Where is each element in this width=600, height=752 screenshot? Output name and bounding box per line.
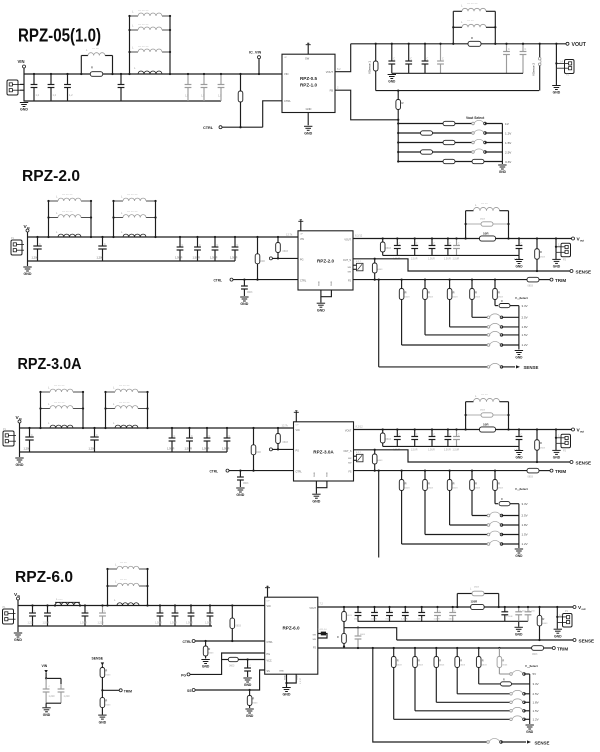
resistor R6 trim <box>527 277 539 282</box>
svg-text:R: R <box>106 670 108 673</box>
svg-text:Vout Select: Vout Select <box>466 116 485 120</box>
svg-text:VIN: VIN <box>18 59 25 64</box>
svg-text:GND: GND <box>304 132 312 136</box>
capacitor C17 output <box>452 607 454 613</box>
ground input <box>14 632 22 634</box>
svg-text:FS: FS <box>348 471 351 474</box>
svg-text:~~ ~~ ~~: ~~ ~~ ~~ <box>54 385 65 388</box>
svg-text:RPZ-0.5: RPZ-0.5 <box>300 76 318 81</box>
wire SS <box>195 670 265 690</box>
capacitor C15 output <box>421 607 423 613</box>
svg-text:FS: FS <box>348 280 351 283</box>
svg-text:VOUT: VOUT <box>572 42 587 48</box>
svg-text:0603: 0603 <box>386 619 392 621</box>
wire PG <box>190 653 265 674</box>
svg-text:0603: 0603 <box>540 448 546 450</box>
svg-text:~~ ~~ ~~: ~~ ~~ ~~ <box>138 45 149 48</box>
jumper 2.5V <box>487 316 490 319</box>
svg-text:CTRL: CTRL <box>267 641 274 644</box>
svg-text:0603: 0603 <box>347 615 353 617</box>
svg-text:GND: GND <box>515 554 523 558</box>
svg-text:OUT_S: OUT_S <box>344 450 352 453</box>
resistor R1 CTRL pull-up <box>256 236 258 238</box>
capacitor C10 VCC <box>246 658 248 660</box>
ground IC pins <box>321 290 332 297</box>
svg-text:1.8V: 1.8V <box>533 701 539 705</box>
ground IC <box>307 113 309 126</box>
op-amp U1 regulator RPZ-0.5/RPZ-1.0 <box>282 54 335 112</box>
svg-text:04R: 04R <box>257 451 262 454</box>
svg-text:1,5UR: 1,5UR <box>428 449 435 452</box>
wire input bus <box>28 236 299 238</box>
svg-text:1,2: 1,2 <box>53 93 57 97</box>
svg-text:~~ ~~ ~~: ~~ ~~ ~~ <box>119 401 130 404</box>
bead SW link <box>318 634 327 639</box>
inductor block output <box>456 594 458 608</box>
svg-text:0603: 0603 <box>418 619 424 621</box>
svg-text:2.5V: 2.5V <box>522 316 528 320</box>
svg-text:Select: Select <box>530 664 538 668</box>
svg-text:0603: 0603 <box>540 257 546 259</box>
svg-text:R: R <box>209 648 211 651</box>
svg-text:C: C <box>508 48 510 51</box>
jumper 2.5V <box>472 151 475 154</box>
svg-text:out: out <box>581 607 585 611</box>
resistor R11 select ladder <box>478 647 480 649</box>
svg-text:1.2V: 1.2V <box>522 343 528 347</box>
capacitor C5 <box>214 237 216 247</box>
jumper 1.2V <box>487 543 490 546</box>
resistor R7 OUT_S to FS <box>374 449 376 451</box>
wire ground drop <box>17 606 19 633</box>
svg-text:~~ ~~: ~~ ~~ <box>481 203 488 206</box>
svg-text:SS: SS <box>267 670 271 673</box>
svg-text:1,200: 1,200 <box>89 447 96 451</box>
capacitor C1 bulk <box>29 428 31 437</box>
svg-text:C: C <box>416 243 418 246</box>
wire ground rail <box>18 625 212 627</box>
resistor R17 <box>101 690 103 697</box>
svg-text:R: R <box>498 291 500 295</box>
svg-text:GND: GND <box>283 693 291 697</box>
jumper 1.2V <box>472 132 475 135</box>
svg-text:GND: GND <box>515 633 523 637</box>
svg-text:1,5UR: 1,5UR <box>444 258 451 261</box>
wire select branch 2.5V <box>398 151 473 153</box>
svg-text:GND: GND <box>43 713 51 717</box>
capacitor C5 <box>159 606 161 614</box>
wire select branch 1.2V <box>394 718 511 720</box>
inductor on bus <box>117 603 139 606</box>
resistor R5 sense <box>536 428 538 430</box>
ground output caps <box>388 74 396 76</box>
resistor R1 CTRL pull-up <box>231 604 233 606</box>
svg-text:CTRL: CTRL <box>300 280 307 283</box>
svg-text:0603: 0603 <box>386 247 392 250</box>
capacitor C4 <box>189 428 191 438</box>
svg-text:R: R <box>453 291 455 295</box>
capacitor C6 <box>234 237 236 247</box>
wire select branch 2.5V <box>472 316 489 318</box>
svg-text:GND: GND <box>499 170 507 174</box>
wire TRIM / FS <box>354 470 528 472</box>
jumper bottom sense <box>487 741 490 744</box>
svg-text:1.2V: 1.2V <box>522 542 528 546</box>
svg-text:GND: GND <box>24 272 32 276</box>
svg-text:RPZ-2.0: RPZ-2.0 <box>317 259 335 264</box>
inductor row <box>108 568 118 570</box>
jumper 1.8V <box>510 701 513 704</box>
resistor block internal row <box>466 414 481 416</box>
jumper 2.5V <box>487 514 490 517</box>
svg-text:R: R <box>428 482 430 486</box>
svg-text:GND: GND <box>285 675 287 680</box>
svg-text:C: C <box>174 435 176 438</box>
ground VIN filter <box>42 707 50 709</box>
svg-text:~~ ~~ ~~: ~~ ~~ ~~ <box>54 401 65 404</box>
svg-text:VOUT: VOUT <box>345 430 352 433</box>
svg-text:out: out <box>580 239 584 243</box>
svg-text:1,210: 1,210 <box>529 611 535 613</box>
svg-text:GND: GND <box>314 472 316 477</box>
capacitor C1 input <box>32 606 34 614</box>
capacitor C13 output <box>522 44 524 52</box>
capacitor C2 bulk <box>94 428 96 437</box>
capacitor C11 output <box>440 44 442 61</box>
wire output bus <box>354 429 572 431</box>
svg-text:1.5V: 1.5V <box>533 709 539 713</box>
wire select branch 2.5V <box>472 515 489 517</box>
inductor row <box>114 217 124 219</box>
svg-text:1,5UR: 1,5UR <box>167 447 174 451</box>
jumper 1.5V <box>472 141 475 144</box>
svg-text:GND: GND <box>99 720 107 724</box>
capacitor C7 CTRL <box>239 471 241 477</box>
svg-text:CTRL: CTRL <box>210 470 219 474</box>
svg-text:GND: GND <box>553 456 561 460</box>
capacitor C9 output <box>414 239 416 246</box>
capacitor gray output <box>518 607 520 612</box>
svg-text:Select: Select <box>520 487 528 491</box>
capacitor C9 output <box>414 430 416 437</box>
svg-text:UP: UP <box>296 425 300 427</box>
resistor R5 output <box>343 606 345 608</box>
terminal Vout <box>573 606 576 609</box>
svg-text:C: C <box>209 435 211 438</box>
resistor R1 CTRL pull-up <box>252 427 254 429</box>
svg-text:1,200: 1,200 <box>24 447 31 451</box>
svg-text:1,5UR: 1,5UR <box>186 622 193 625</box>
ground select <box>498 164 506 166</box>
connector P1 <box>3 609 14 624</box>
svg-text:R: R <box>106 700 108 703</box>
svg-text:1,210: 1,210 <box>28 622 35 625</box>
svg-text:1,5UR: 1,5UR <box>155 622 162 625</box>
inductor L1 with resistor R1 (bead network) <box>80 56 82 75</box>
inductor on bus <box>50 425 73 428</box>
wire VIN ground drop <box>19 428 21 457</box>
svg-text:GND: GND <box>515 265 523 269</box>
svg-text:R: R <box>418 659 420 663</box>
svg-text:GND: GND <box>240 302 248 306</box>
wire SENSE <box>353 259 570 271</box>
svg-text:1,210: 1,210 <box>49 695 56 698</box>
resistor R5 sense <box>536 237 538 239</box>
svg-text:C: C <box>229 435 231 438</box>
jumper 1.8V <box>487 326 490 329</box>
resistor R11 select ladder <box>424 278 426 280</box>
wire ground rail <box>20 451 228 453</box>
svg-text:0603: 0603 <box>453 488 459 490</box>
wire VIN ground drop <box>27 237 29 266</box>
svg-text:C: C <box>521 434 523 437</box>
svg-text:5V: 5V <box>533 672 537 676</box>
svg-text:SENSE: SENSE <box>579 638 595 643</box>
svg-text:0603: 0603 <box>498 297 504 299</box>
svg-text:1,5UR: 1,5UR <box>401 619 408 621</box>
svg-text:TRIM: TRIM <box>124 690 132 694</box>
svg-text:SW: SW <box>305 57 310 61</box>
wire output cap rail <box>358 620 528 622</box>
svg-text:GND: GND <box>515 456 523 460</box>
wire select branch 1.5V <box>398 142 473 144</box>
svg-text:TRIM: TRIM <box>557 646 568 651</box>
ground connector J2 <box>555 68 557 85</box>
resistor R8 select <box>421 150 433 154</box>
terminal SENSE <box>570 270 573 273</box>
svg-text:GND: GND <box>312 499 320 503</box>
svg-text:~~ ~~ ~~: ~~ ~~ ~~ <box>119 385 130 388</box>
wire output bus <box>318 606 573 608</box>
wire TRIM / FS <box>318 647 532 649</box>
svg-text:RPZ-3.0A: RPZ-3.0A <box>313 450 334 455</box>
svg-text:GND: GND <box>244 683 252 687</box>
resistor VSense1 <box>375 43 377 45</box>
inductor row <box>114 200 124 202</box>
svg-text:1,5UR: 1,5UR <box>193 256 200 260</box>
connector P1 <box>11 240 22 255</box>
wire select branch 1.8V <box>450 524 489 526</box>
inductor row <box>41 408 51 410</box>
capacitor C6 <box>203 74 205 85</box>
svg-text:0603: 0603 <box>482 665 488 667</box>
svg-text:1,5UR: 1,5UR <box>230 256 237 260</box>
ground select <box>515 350 523 352</box>
inductor block (parallel options) <box>113 201 115 237</box>
ground IC pins <box>316 481 327 488</box>
capacitor C4 <box>197 237 199 247</box>
svg-text:CTRL: CTRL <box>296 471 303 474</box>
wire select branch 3.3V <box>495 503 498 505</box>
resistor R8 select ladder <box>494 469 496 471</box>
svg-text:0603: 0603 <box>243 482 249 485</box>
svg-text:2.5V: 2.5V <box>533 692 539 696</box>
inductor block (parallel options) <box>48 201 50 237</box>
capacitor C16 output <box>437 607 439 613</box>
wire input bus <box>18 605 265 607</box>
svg-text:SENSE: SENSE <box>576 460 592 465</box>
connector P2 output <box>556 607 558 622</box>
svg-text:CTRL: CTRL <box>284 99 291 103</box>
svg-text:R: R <box>501 300 503 303</box>
wire VOUT pin <box>335 44 351 72</box>
svg-text:0603: 0603 <box>236 625 242 628</box>
svg-text:0603: 0603 <box>528 285 534 288</box>
svg-text:0603: 0603 <box>502 665 508 667</box>
wire <box>46 677 61 679</box>
svg-text:1,5UR: 1,5UR <box>434 619 441 621</box>
capacitor C8 output <box>391 44 393 61</box>
jumper 2.5V <box>510 693 513 696</box>
svg-text:PG: PG <box>296 449 300 452</box>
resistor R9 trim <box>532 646 544 651</box>
svg-text:VIN: VIN <box>284 72 288 76</box>
svg-text:R: R <box>402 101 404 105</box>
capacitor C13 output <box>518 239 520 246</box>
capacitor C10 output <box>431 430 433 437</box>
svg-text:C: C <box>449 243 451 246</box>
wire FS drop <box>378 278 380 280</box>
ground IC pins <box>287 674 297 683</box>
svg-text:C: C <box>449 434 451 437</box>
wire input bus <box>24 73 282 75</box>
capacitor C4 input <box>102 606 104 614</box>
capacitor C21 gray <box>357 628 359 636</box>
wire output bus <box>353 238 572 240</box>
svg-text:~~ ~~: ~~ ~~ <box>120 579 127 582</box>
capacitor C11 output <box>357 607 359 613</box>
svg-text:C: C <box>427 58 429 61</box>
svg-text:R: R <box>498 482 500 486</box>
resistor R7 OUT_S to FS <box>374 258 376 260</box>
svg-text:R: R <box>540 250 542 254</box>
svg-text:VOUT: VOUT <box>344 239 351 242</box>
svg-text:GND: GND <box>388 80 396 84</box>
capacitor C10 output <box>424 44 426 61</box>
ground output caps <box>518 255 520 259</box>
svg-text:1,5UR: 1,5UR <box>80 622 87 625</box>
terminal TRIM <box>552 647 555 650</box>
svg-text:1,5UR: 1,5UR <box>411 449 418 452</box>
svg-text:C: C <box>458 243 460 246</box>
svg-text:C: C <box>458 434 460 437</box>
terminal TRIM <box>550 278 553 281</box>
svg-text:0603: 0603 <box>475 488 481 490</box>
svg-text:R: R <box>482 659 484 663</box>
svg-text:1,5UR: 1,5UR <box>371 619 378 621</box>
svg-text:VIN: VIN <box>300 238 304 241</box>
capacitor C3 <box>67 74 69 85</box>
svg-text:L ~~~: L ~~~ <box>56 597 63 601</box>
svg-text:1.2V: 1.2V <box>505 131 512 135</box>
capacitor C12 output <box>456 239 458 246</box>
svg-text:3.3V: 3.3V <box>533 682 539 686</box>
svg-text:GND: GND <box>554 634 562 638</box>
ground select <box>515 548 523 550</box>
ground input <box>15 457 23 459</box>
resistor R9 select ladder <box>471 469 473 471</box>
terminal PG <box>269 257 272 260</box>
capacitor C8 output <box>396 430 398 437</box>
ground divider <box>98 714 106 716</box>
ground output caps <box>518 446 520 450</box>
svg-text:GND: GND <box>297 675 299 680</box>
svg-text:1,210: 1,210 <box>64 695 71 698</box>
wire TRIM / FS <box>353 279 527 281</box>
resistor block internal row <box>466 223 481 225</box>
resistor R12 select ladder <box>456 647 458 649</box>
svg-text:1.2V: 1.2V <box>533 718 539 722</box>
svg-text:0603: 0603 <box>439 665 445 667</box>
svg-text:1,5UR: 1,5UR <box>506 616 513 618</box>
inductor block output <box>465 402 467 430</box>
svg-text:1,200: 1,200 <box>97 256 104 260</box>
resistor block internal <box>472 591 484 596</box>
svg-text:8.2: 8.2 <box>337 67 341 71</box>
svg-text:SENSE: SENSE <box>92 657 104 661</box>
resistor R7 sense <box>538 606 540 608</box>
svg-text:GND: GND <box>279 671 284 673</box>
resistor R8 <box>343 628 345 634</box>
svg-text:1,5UR: 1,5UR <box>222 447 229 451</box>
svg-text:R: R <box>503 678 505 681</box>
ground connector <box>555 443 557 450</box>
resistor R3 VCC <box>228 657 238 661</box>
resistor R7 select <box>443 140 455 144</box>
jumper 1.8V <box>487 524 490 527</box>
wire cap join <box>46 702 61 704</box>
svg-text:VSense 2: VSense 2 <box>532 63 536 76</box>
capacitor C6 <box>174 606 176 614</box>
svg-text:0603: 0603 <box>229 665 235 668</box>
resistor R4 on bus <box>480 236 496 241</box>
resistor R16 <box>100 668 105 678</box>
op-amp U1 regulator RPZ-2.0 <box>298 231 353 290</box>
svg-text:UP: UP <box>300 234 304 236</box>
svg-text:10R: 10R <box>483 422 489 426</box>
capacitor C4 <box>120 74 122 85</box>
svg-text:0603: 0603 <box>209 653 215 655</box>
terminal TRIM <box>550 469 553 472</box>
inductor block output L6 L7 <box>452 11 454 44</box>
svg-text:C: C <box>39 243 41 246</box>
svg-text:out: out <box>580 430 584 434</box>
wire select right rail <box>501 124 503 165</box>
svg-text:0603: 0603 <box>360 634 366 636</box>
svg-text:0603: 0603 <box>428 488 434 490</box>
wire ladder left rail <box>397 120 399 162</box>
svg-text:C: C <box>442 58 444 61</box>
wire OUT_S staircase <box>344 628 397 640</box>
svg-text:SENSE: SENSE <box>524 365 539 370</box>
inductor row <box>108 585 118 587</box>
svg-text:RPZ-6.0: RPZ-6.0 <box>282 626 300 631</box>
svg-text:VOUT: VOUT <box>326 70 334 74</box>
resistor R2 PG pull-up <box>277 236 279 238</box>
svg-text:GND: GND <box>526 730 534 734</box>
ground <box>20 102 28 104</box>
resistor R4 on bus <box>480 427 496 432</box>
svg-text:1,5: 1,5 <box>218 94 222 98</box>
svg-text:0603: 0603 <box>453 297 459 299</box>
svg-text:R: R <box>453 482 455 486</box>
wire output cap rail <box>392 72 523 74</box>
svg-text:1,5: 1,5 <box>201 94 205 98</box>
inductor row <box>106 408 116 410</box>
svg-text:C: C <box>182 244 184 247</box>
svg-text:0603: 0603 <box>247 291 253 294</box>
capacitor C2 <box>50 74 52 85</box>
